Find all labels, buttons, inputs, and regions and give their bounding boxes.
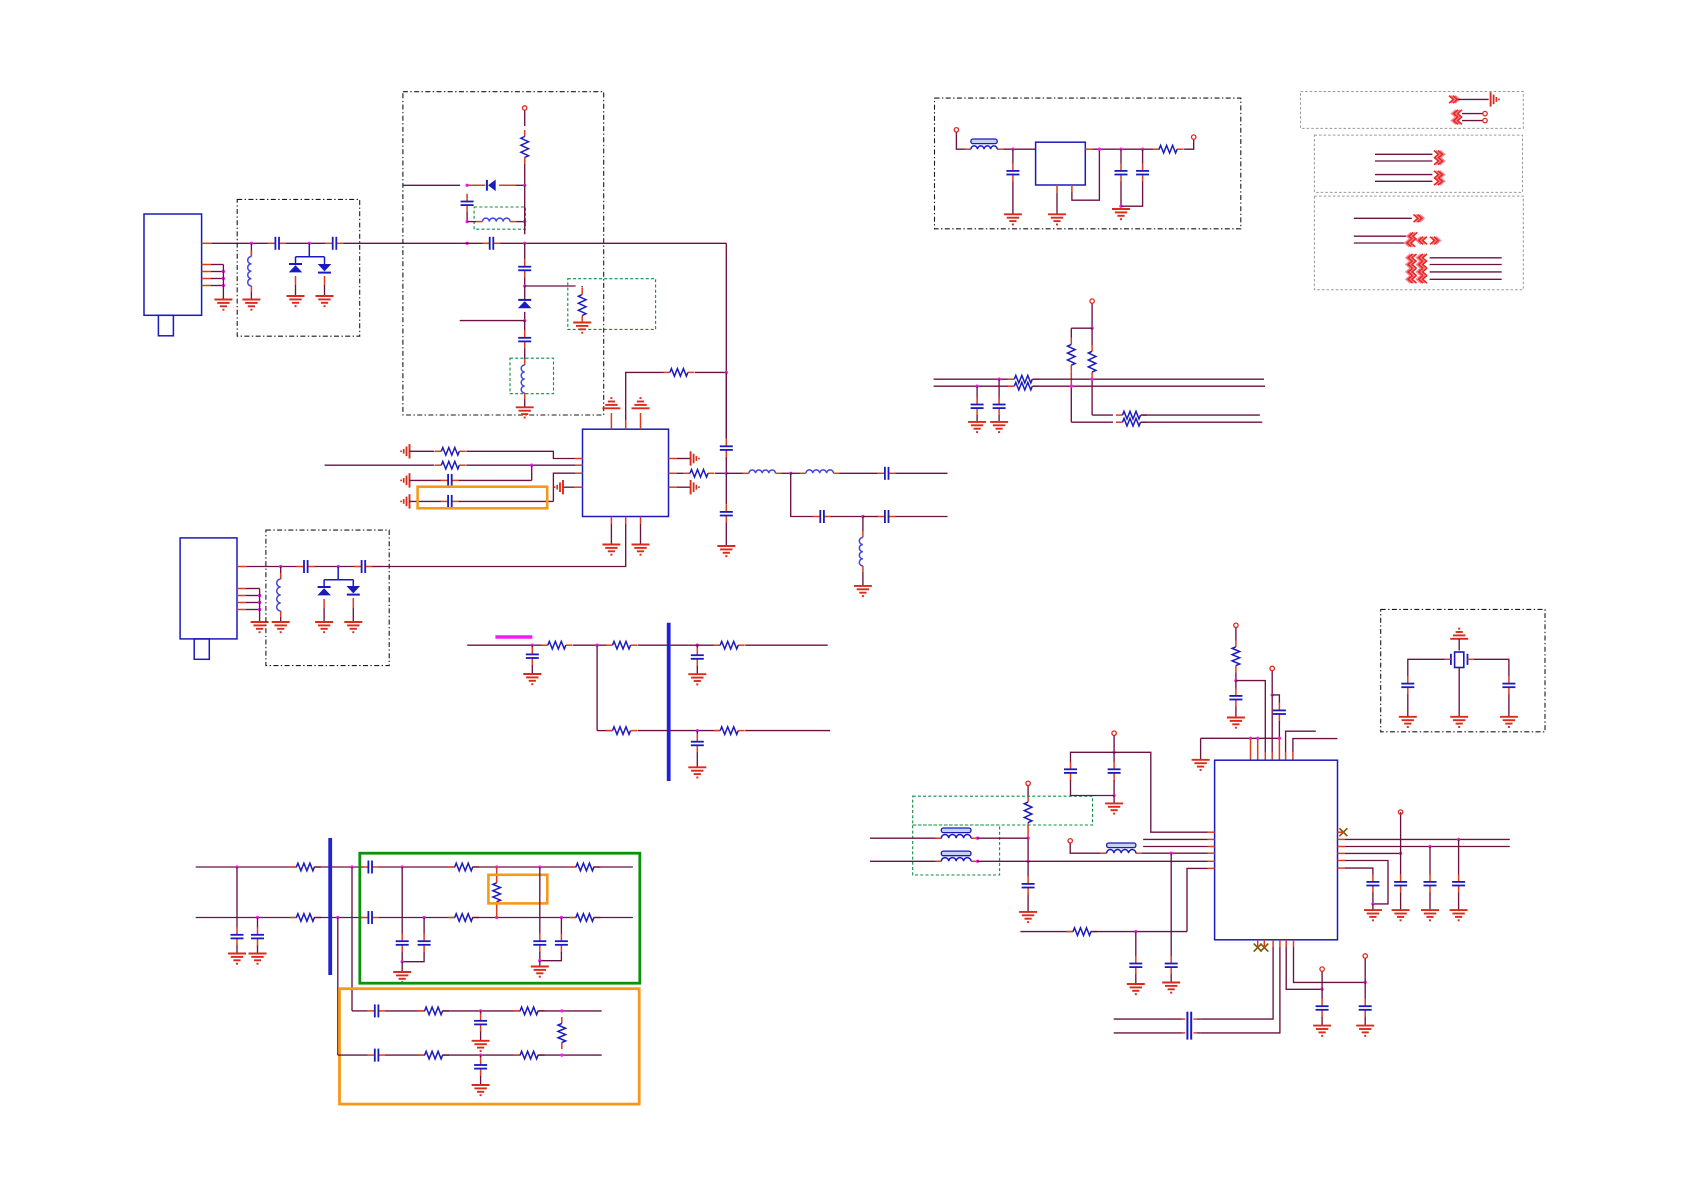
wire C47 stem: [1321, 989, 1323, 999]
bus bar A: [667, 623, 671, 781]
capacitor C16: [531, 647, 533, 655]
port chevron P2-4: [1436, 178, 1444, 186]
wire AVDD down: [1113, 736, 1115, 753]
wire rowD d: [538, 1054, 602, 1056]
capacitor C24: [423, 934, 425, 942]
inductor L1: [250, 251, 252, 257]
wire C31 stem: [1012, 149, 1014, 164]
regulator box outline: [935, 98, 1241, 229]
resistor R5: [435, 464, 442, 466]
capacitor C38: [1027, 876, 1029, 884]
junction r3 C45: [1428, 845, 1431, 848]
U2 pin OSC lead: [625, 420, 627, 429]
port chevron P3-3c: [1432, 237, 1440, 245]
wire row5 d: [745, 644, 828, 646]
U3 pin l3 lead: [1208, 846, 1215, 848]
capacitor C10: [725, 504, 727, 512]
junction node H: [1271, 693, 1274, 696]
wire C39 bot: [1113, 780, 1115, 795]
resistor R11: [714, 730, 721, 732]
wire R30 to node G: [1235, 672, 1237, 681]
ground D1: [287, 295, 305, 297]
no-connect U3 b1: [1254, 944, 1262, 952]
U3 pin l2 lead: [1208, 838, 1215, 840]
wire J1 shield bus: [222, 265, 224, 300]
junction C43 gnd: [1371, 902, 1374, 905]
wire C44 gnd: [1400, 893, 1402, 910]
resistor R13: [448, 866, 455, 868]
capacitor C37: [1278, 703, 1280, 711]
wire C44 stem: [1400, 853, 1402, 874]
wire C39 stem: [1113, 752, 1115, 762]
junction C31 top: [1011, 148, 1014, 151]
wire P3-L4: [1430, 278, 1502, 280]
wire PU down: [1091, 304, 1093, 329]
terminal P1-2: [1483, 111, 1487, 115]
ground clusterL: [393, 971, 411, 973]
cal box upper outline: [913, 796, 1093, 825]
wire C46 stem: [1458, 839, 1460, 874]
junction C32 gnd: [1119, 205, 1122, 208]
wire C12 to node F: [831, 516, 863, 518]
ground C28: [472, 1040, 490, 1042]
wire riser rowC: [351, 867, 353, 1011]
junction rowD C30: [479, 1053, 482, 1056]
junction bus p5: [1278, 737, 1281, 740]
wire D3 to vert: [516, 184, 525, 186]
port chevron P1-2: [1452, 110, 1460, 118]
U4 en pin lead: [1071, 185, 1073, 192]
junction FB2 out: [976, 837, 979, 840]
ground J2 shield: [251, 621, 269, 623]
ground L3: [516, 406, 534, 408]
wire C34 gnd: [998, 415, 1000, 422]
U2 pin VDD1 lead: [610, 413, 612, 429]
wire TVS stem: [308, 243, 310, 256]
ground C42: [1127, 983, 1145, 985]
antenna gnd r3: [690, 480, 692, 494]
wire C45 gnd: [1429, 893, 1431, 910]
junction rowA clusterR: [538, 865, 541, 868]
wire row6 c: [745, 730, 830, 732]
port chevron P3-L4a: [1406, 276, 1414, 284]
lower group box: [340, 989, 640, 1104]
junction J2 shield a: [258, 594, 261, 597]
junction clusterL: [401, 960, 404, 963]
diode D1 (TVS): [289, 263, 302, 265]
wire r3: [677, 486, 691, 488]
ground C51: [1500, 716, 1518, 718]
wire row4 b: [459, 500, 554, 502]
terminal VDD33: [1234, 623, 1238, 627]
capacitor C3: [466, 194, 468, 202]
wire row1 a: [410, 450, 435, 452]
wire C30 stem: [480, 1055, 482, 1059]
port chevron P3-L4b: [1417, 276, 1425, 284]
wire P3-L2: [1430, 264, 1502, 266]
capacitor C36: [1235, 688, 1237, 696]
U2 pin3 lead: [575, 472, 583, 474]
U3 pin t5 lead: [1278, 738, 1280, 760]
wire C45 stem: [1429, 847, 1431, 875]
ground C16: [523, 673, 541, 675]
U2 pin4 lead: [574, 486, 583, 488]
junction rowB clusterR: [560, 916, 563, 919]
wire C33 stem: [1142, 149, 1144, 164]
wire P2-3: [1375, 174, 1432, 176]
wire xtal top: [1458, 639, 1460, 651]
junction C39 C40: [1112, 794, 1115, 797]
ground U2 b: [632, 544, 650, 546]
wire U3 r2: [1345, 838, 1510, 840]
resistor R22: [514, 1054, 521, 1056]
capacitor C4s: [482, 242, 490, 244]
ground D6: [344, 621, 362, 623]
terminal VIN: [954, 128, 958, 132]
port box P2 outline: [1314, 135, 1522, 192]
terminal GPIO2: [1363, 954, 1367, 958]
wire U3 b6: [1294, 947, 1366, 982]
ground J1 shield: [214, 299, 232, 301]
junction rail C33: [1141, 148, 1144, 151]
wire rowB a: [196, 917, 297, 919]
junction R31 line1: [1026, 837, 1029, 840]
wire VREF down: [1027, 786, 1029, 796]
filter group box: [360, 853, 640, 983]
wire C42 stem: [1135, 932, 1137, 957]
wire to L2: [467, 221, 476, 223]
wire C14 to C15: [315, 566, 355, 568]
wire C19 drop: [236, 867, 238, 928]
U3 pin r3 lead: [1338, 846, 1346, 848]
wire P1-2: [1462, 113, 1482, 115]
resistor R21: [418, 1054, 425, 1056]
resistor R17: [496, 876, 498, 883]
ground U2 a: [602, 544, 620, 546]
capacitor C20: [361, 866, 369, 868]
wire C50 gnd: [1407, 694, 1409, 716]
wire C18 gnd: [696, 753, 698, 768]
wire FB4 node down: [1170, 853, 1172, 956]
wire C28 stem: [480, 1011, 482, 1015]
ground C44: [1392, 909, 1410, 911]
wire J2 pin 4: [246, 602, 260, 604]
wire row6 b: [638, 730, 721, 732]
wire C17 gnd: [696, 666, 698, 674]
U3 pin b4 lead: [1279, 940, 1281, 947]
resistor R12: [290, 866, 297, 868]
D3 right lead: [499, 184, 516, 186]
wire J1 pin 3: [211, 271, 223, 273]
wire P2-4: [1375, 180, 1432, 182]
junction TVS2 node: [337, 565, 340, 568]
capacitor C8: [440, 479, 448, 481]
resistor R6: [684, 472, 691, 474]
wire L5 to C11: [840, 472, 878, 474]
wire rowA c: [379, 866, 455, 868]
wire U4 out rail: [1093, 148, 1160, 150]
J2 shield pin 3 lead: [237, 595, 246, 597]
port chevron P3-3a: [1405, 239, 1413, 247]
wire xtal left: [1408, 659, 1445, 676]
ground C38: [1019, 911, 1037, 913]
wire C37 to bus: [1278, 721, 1280, 738]
wire node E down: [791, 473, 813, 516]
capacitor C7: [725, 439, 727, 447]
wire main to matching box: [344, 242, 459, 244]
junction node G: [1234, 679, 1237, 682]
resistor R7: [541, 644, 548, 646]
junction rail C32: [1119, 148, 1122, 151]
net highlight bar: [495, 635, 532, 639]
wire line2 a: [934, 385, 1014, 387]
U2 pin GND1 lead: [610, 517, 612, 525]
wire R23 to VOUT: [1184, 140, 1194, 150]
wire C47 gnd: [1321, 1017, 1323, 1026]
wire J1 pin1 to filter: [212, 242, 272, 244]
ground U4: [1048, 213, 1066, 215]
wire R1 to D3 row: [524, 164, 526, 185]
wire C35 stem: [976, 386, 978, 399]
wire U3 r5 loop: [1345, 861, 1388, 904]
wire C35 gnd: [976, 415, 978, 422]
U3 pin r6 lead: [1338, 867, 1346, 869]
junction line2 R24: [1070, 385, 1073, 388]
wire clusterR gnd: [539, 961, 541, 967]
antenna gnd row1: [409, 444, 411, 458]
filter box 2 outline: [266, 530, 389, 666]
resistor R19: [514, 1010, 521, 1012]
wire C36 gnd: [1235, 707, 1237, 718]
junction main node A: [465, 242, 468, 245]
wire xtal right: [1474, 659, 1509, 676]
wire rowD a: [338, 1054, 368, 1056]
diode D2 (TVS): [318, 264, 332, 271]
junction FB4 node: [1170, 852, 1173, 855]
ferrite bead FB3: [935, 860, 941, 862]
wire C51 gnd: [1508, 694, 1510, 716]
antenna gnd row4: [409, 494, 411, 508]
wire node B to R2: [525, 285, 576, 287]
wire L1 bottom: [250, 292, 252, 300]
wire L1 top: [250, 243, 252, 256]
wire PU left: [1071, 327, 1092, 329]
ground L1: [242, 299, 260, 301]
diode D5 (TVS): [318, 586, 331, 588]
wire rowC c: [442, 1010, 520, 1012]
wire C46 gnd: [1458, 893, 1460, 910]
connector J1: [144, 214, 202, 315]
wire pin4 to gnd: [563, 486, 574, 488]
wire U3 b3: [1200, 947, 1273, 1019]
U3 pin b5 lead: [1285, 940, 1287, 947]
U3 pin t3 lead: [1264, 752, 1266, 760]
wire J1 pin 5: [211, 285, 223, 287]
wire U3 b4: [1200, 947, 1280, 1033]
IC U3: [1215, 760, 1338, 940]
wire RST row a: [1020, 931, 1073, 933]
capacitor C26: [560, 934, 562, 942]
junction rowA R17 top: [495, 865, 498, 868]
terminal TCK: [1398, 810, 1402, 814]
wire R17 top lead: [496, 867, 498, 883]
wire line1 a: [934, 378, 1014, 380]
junction R31 line2: [1026, 860, 1029, 863]
wire TCK term: [1400, 812, 1402, 853]
wire rowA d: [472, 866, 547, 868]
wire C7 to node D: [725, 457, 727, 473]
junction rowB C21: [256, 916, 259, 919]
wire R24 top: [1070, 328, 1072, 338]
U3 pin l1 lead: [1208, 831, 1215, 833]
wire C43 bot: [1372, 893, 1374, 904]
junction row6 C18: [696, 729, 699, 732]
antenna gnd r1: [690, 451, 692, 465]
wire D5 gnd: [323, 608, 325, 622]
junction row2/row3: [530, 464, 533, 467]
wire rowB d: [472, 917, 576, 919]
wire line1 b: [1033, 378, 1264, 380]
wire U2 pin3: [553, 473, 575, 501]
inductor L5: [800, 472, 806, 474]
wire L3 to ground: [524, 399, 526, 407]
junction L7 top: [279, 565, 282, 568]
wire node F down: [862, 517, 864, 532]
terminal VDD18: [1270, 666, 1274, 670]
wire row5 c2: [688, 644, 720, 646]
resistor R27: [1008, 385, 1015, 387]
wire node G right: [1236, 681, 1265, 752]
capacitor C9: [440, 500, 448, 502]
capacitor C29: [367, 1054, 375, 1056]
ground C45: [1421, 909, 1439, 911]
wire row5 b: [573, 644, 607, 646]
resistor R8: [606, 644, 613, 646]
wire node F to C13: [863, 516, 878, 518]
junction FB3 out: [976, 860, 979, 863]
wire C2 gap fill: [458, 242, 482, 244]
junction line1 C34: [997, 378, 1000, 381]
wire GPIO1 down: [1321, 972, 1323, 990]
wire C48 gnd: [1364, 1017, 1366, 1026]
junction vert/R3: [725, 371, 728, 374]
ground C34: [990, 421, 1008, 423]
junction row5 C16: [531, 644, 534, 647]
resistor R17b: [569, 917, 576, 919]
resistor R14: [569, 866, 576, 868]
wire node D down: [725, 473, 727, 504]
wire VDD33 down: [1235, 628, 1237, 641]
connector J2: [180, 538, 237, 639]
IC U4 regulator: [1036, 142, 1086, 185]
wire J2 pin 3: [246, 595, 260, 597]
resistor R9: [714, 644, 721, 646]
wire vert D3-main: [524, 185, 526, 234]
port chevron P3-1: [1416, 215, 1424, 223]
resistor R24: [1070, 338, 1072, 345]
ground U3 top: [1192, 759, 1210, 761]
resistor R15: [290, 917, 297, 919]
ground C31: [1004, 213, 1022, 215]
junction rowA C19: [235, 865, 238, 868]
wire J2 pin1: [247, 566, 297, 568]
resistor R30: [1235, 640, 1237, 647]
capacitor C48: [1364, 999, 1366, 1007]
wire row5 a: [467, 644, 546, 646]
inductor L4: [743, 472, 749, 474]
port chevron P3-L2b: [1417, 261, 1425, 269]
junction J1 shield bus a: [222, 270, 225, 273]
wire C34 stem: [998, 379, 1000, 399]
wire C39 gnd: [1113, 796, 1115, 804]
wire vert seg2: [725, 372, 727, 438]
capacitor C6: [524, 330, 526, 338]
wire TVS2 stem: [337, 567, 339, 580]
wire L2 to vert: [516, 221, 525, 223]
wire clusterL c1 drop: [401, 867, 403, 934]
U3 pin l5 lead: [1208, 860, 1215, 862]
wire rowD c: [442, 1054, 520, 1056]
ground C41: [1162, 982, 1180, 984]
port chevron P3-L1b: [1417, 254, 1425, 262]
wire J1 pin 2: [211, 264, 223, 266]
U3 pin t7 lead: [1292, 752, 1294, 760]
capacitor C12: [813, 516, 821, 518]
U2 pin GND2 lead: [640, 517, 642, 525]
junction rowA riserC: [350, 865, 353, 868]
wire GPIO2 down: [1364, 959, 1366, 983]
inductor L7: [280, 573, 282, 579]
port chevron P3-L3a: [1406, 268, 1414, 276]
J1 shield pin 3 lead: [202, 271, 211, 273]
junction AVDD: [1112, 751, 1115, 754]
wire C5 to node B: [524, 278, 526, 287]
capacitor C18: [696, 734, 698, 742]
terminal GPIO1: [1320, 967, 1324, 971]
wire D3 row left: [403, 184, 460, 186]
tuning box L2 outline: [474, 207, 525, 229]
ground C32: [1112, 208, 1130, 210]
U3 pin r2 lead: [1338, 838, 1346, 840]
ground D2: [316, 295, 334, 297]
capacitor C19: [236, 927, 238, 935]
wire C33 join: [1121, 182, 1143, 207]
wire C11 out: [896, 472, 948, 474]
U3 pin t4 lead: [1271, 752, 1273, 760]
wire U3 top bus: [1201, 737, 1280, 739]
highlight box R17: [488, 875, 547, 904]
resistor R29: [1116, 421, 1123, 423]
capacitor C22: [361, 917, 369, 919]
wire C42 gnd: [1135, 974, 1137, 984]
J2 pin1 lead: [237, 566, 247, 568]
J1 pin 1 lead: [202, 242, 212, 244]
wire rowB b: [314, 917, 364, 919]
wire C18 stem: [696, 731, 698, 735]
no-connect U3 b2: [1260, 944, 1268, 952]
terminal P1-3: [1483, 118, 1487, 122]
wire C36 stem: [1235, 681, 1237, 689]
ground D5: [315, 621, 333, 623]
wire U2 gnd1: [610, 524, 612, 545]
capacitor C35: [976, 397, 978, 405]
junction J1 shield bus b: [222, 277, 225, 280]
junction J2 shield c: [258, 608, 261, 611]
wire L7 top: [280, 567, 282, 580]
wire U4 en loop: [1072, 149, 1100, 200]
D6 lead: [352, 598, 354, 608]
U2 pin r1 lead: [669, 458, 678, 460]
